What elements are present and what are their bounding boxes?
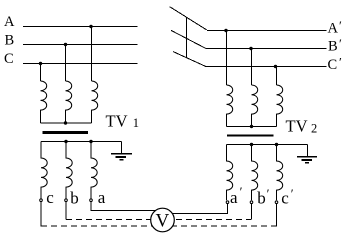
TV2 secondary coil a' (227, 145, 233, 201)
ground TV1 (111, 154, 132, 160)
wire: phase line C' (207, 66, 327, 68)
wire: phase line A' (207, 30, 327, 32)
junction at TV2 star point (250, 125, 253, 128)
svg-text:c: c (46, 188, 54, 207)
terminal b (65, 199, 68, 202)
svg-text:TV: TV (286, 117, 308, 136)
svg-text:′: ′ (339, 55, 342, 70)
svg-text:b: b (70, 189, 79, 208)
svg-text:c: c (281, 189, 289, 208)
TV2 secondary coil c' (277, 145, 283, 201)
junction on line A (89, 25, 92, 28)
svg-text:b: b (257, 189, 266, 208)
wire: voltmeter to terminal a' (173, 204, 228, 214)
svg-text:′: ′ (291, 186, 294, 201)
wire: phase line B' (207, 48, 327, 50)
junction on secondary bus (b) (64, 140, 67, 143)
wire: TV2 primary star point (227, 126, 277, 128)
TV2 primary coil phase B' (252, 85, 258, 126)
wire: tap from line A to TV1 primary (91, 27, 93, 82)
junction on TV2 secondary bus (b') (250, 143, 253, 146)
TV1 primary coil phase A (92, 81, 98, 123)
svg-text:B: B (5, 33, 15, 49)
wire: dashed link terminal b to terminal b' (65, 202, 67, 219)
svg-text:′: ′ (339, 18, 342, 33)
svg-text:A: A (4, 14, 15, 30)
svg-text:′: ′ (267, 186, 270, 201)
ground TV2 (297, 157, 317, 163)
wire: tap from line B' to TV2 primary (251, 49, 253, 86)
wire: tap from line C to TV1 primary (40, 64, 42, 82)
TV2 core (227, 134, 273, 136)
TV1 core (43, 131, 89, 134)
junction on line B' (249, 47, 252, 50)
wire: tap from line A' to TV2 primary (226, 31, 228, 86)
terminal c' (275, 201, 278, 204)
wire: TV1 secondary bus (41, 141, 122, 143)
junction on line C (39, 62, 42, 65)
junction on TV2 secondary bus (c') (275, 143, 278, 146)
TV1 secondary coil b (66, 142, 72, 199)
wire: terminal c' lead to dashed link (276, 204, 278, 226)
svg-text:C: C (328, 57, 338, 73)
terminal a (90, 199, 93, 202)
svg-text:V: V (156, 211, 170, 232)
TV2 primary coil phase A' (227, 85, 233, 126)
wire: TV1 secondary ground lead (121, 142, 123, 154)
TV2 primary coil phase C' (277, 85, 283, 126)
svg-text:A: A (328, 21, 339, 37)
wire: TV1 primary star point (41, 122, 92, 124)
junction on secondary bus (a) (89, 140, 92, 143)
wire: incoming span of line C' (diagonal) (173, 52, 207, 67)
terminal a' (226, 201, 229, 204)
wire: phase line C (23, 63, 138, 65)
wire: dashed link terminal c to terminal c' (40, 202, 42, 226)
TV1 primary coil phase C (41, 81, 47, 123)
TV1 secondary coil a (91, 142, 97, 199)
svg-text:1: 1 (133, 116, 139, 130)
wire: incoming span of line A' (diagonal) (170, 7, 207, 30)
junction on line B (64, 43, 67, 46)
wire: crossing tie on incoming line (185, 17, 187, 57)
wire: TV2 secondary bus (227, 144, 308, 146)
wire: phase line A (23, 26, 138, 28)
TV1 secondary coil c (41, 142, 47, 199)
junction at TV1 star point (64, 121, 67, 124)
svg-text:C: C (4, 51, 14, 67)
TV2 secondary coil b' (252, 145, 258, 201)
wire: terminal b' lead to dashed link (251, 204, 253, 220)
svg-text:TV: TV (106, 111, 128, 130)
wire: terminal a to voltmeter (91, 202, 156, 210)
terminal b' (250, 201, 253, 204)
terminal c (40, 199, 43, 202)
voltmeter V (151, 208, 175, 232)
svg-text:′: ′ (240, 184, 243, 199)
svg-text:B: B (328, 39, 338, 55)
junction on line A' (224, 29, 227, 32)
wire: tap from line C' to TV2 primary (276, 67, 278, 86)
svg-text:a: a (230, 188, 238, 207)
wire: phase line B (23, 44, 138, 46)
wire: incoming span of line B' (diagonal) (171, 30, 206, 48)
wire: tap from line B to TV1 primary (65, 45, 67, 82)
junction on line C' (274, 65, 277, 68)
svg-text:′: ′ (339, 36, 342, 51)
TV1 primary coil phase B (66, 81, 72, 123)
wire: TV2 secondary ground lead (307, 145, 309, 157)
svg-text:a: a (98, 188, 106, 207)
svg-text:2: 2 (311, 122, 317, 136)
